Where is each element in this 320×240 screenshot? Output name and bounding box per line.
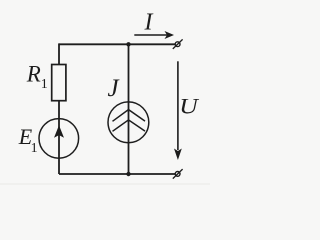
svg-text:1: 1 [31,141,38,156]
resistor R1 [52,65,66,101]
wire bottom horizontal [59,173,175,175]
terminal bottom [175,172,180,177]
svg-text:J: J [108,75,121,102]
wire left branch middle [58,101,60,174]
terminal top [175,42,180,47]
wire top horizontal [59,43,175,45]
node junction bottom [126,172,130,176]
node junction top [126,42,130,46]
wire left branch upper [58,43,60,64]
svg-text:U: U [179,94,200,119]
current arrow I [134,34,167,36]
emf source E1 [39,119,79,159]
svg-text:I: I [144,10,154,36]
scan edge artifact line [0,184,210,185]
wire middle branch [128,44,130,174]
current source J [108,102,149,143]
svg-text:1: 1 [41,77,48,92]
svg-text:R: R [26,62,41,87]
voltage arrow U [177,61,179,150]
